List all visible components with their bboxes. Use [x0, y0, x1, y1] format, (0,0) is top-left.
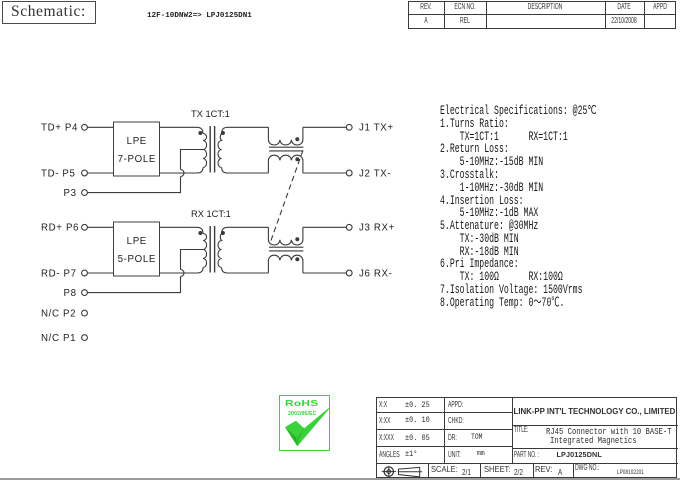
choke RX top winding	[268, 227, 303, 245]
revision table	[408, 1, 676, 29]
tolerance row X:X	[379, 399, 387, 411]
dwg no cell	[575, 462, 599, 474]
phase dot RX secondary	[221, 231, 225, 235]
wire P5 to LPE	[87, 172, 113, 174]
scale cell	[431, 464, 458, 476]
part no label	[514, 449, 539, 461]
choke RX core	[269, 247, 303, 251]
svg-text:P8: P8	[64, 288, 77, 299]
wire TX secondary bottom to choke	[222, 168, 269, 174]
tolerance row X:XXX	[379, 432, 394, 444]
choke TX bottom winding	[268, 155, 303, 173]
choke TX core	[269, 147, 303, 151]
wire transformer TX center tap to P3 riser	[181, 150, 204, 170]
wire hop over P5 wire	[181, 170, 185, 177]
schematic title box	[2, 1, 96, 24]
LPE 7-POLE filter box	[114, 122, 160, 176]
phase dot TX choke bottom	[295, 157, 299, 161]
pin P4 (TD+)	[82, 124, 88, 130]
wire transformer RX center tap to P8 riser	[181, 250, 204, 270]
sheet cell	[484, 464, 510, 476]
transformer RX secondary winding	[218, 234, 222, 268]
title block	[376, 397, 677, 478]
svg-text:RD- P7: RD- P7	[41, 268, 77, 279]
pin J6 RX-	[346, 270, 352, 276]
wire LPE to transformer TX primary top	[159, 127, 203, 133]
pin J3 RX+	[346, 224, 352, 230]
svg-text:LPE: LPE	[127, 136, 147, 147]
rev cell	[535, 464, 552, 476]
wire riser to P3 rail	[87, 177, 180, 193]
wire TX secondary top to choke	[222, 127, 269, 133]
pin P5 (TD-)	[82, 170, 88, 176]
company name	[514, 406, 676, 418]
wire choke to J6	[303, 272, 346, 274]
transformer TX primary winding upper half	[203, 134, 207, 150]
svg-text:N/C P2: N/C P2	[41, 309, 76, 320]
electrical specifications text	[440, 105, 597, 309]
pin P3	[82, 190, 88, 196]
sign row CHKD:	[448, 415, 464, 427]
wire LPE to transformer RX primary bottom	[159, 268, 203, 274]
pin P7 (RD-)	[82, 270, 88, 276]
drawing title line 1	[546, 426, 672, 439]
wire riser to P8 rail	[87, 277, 180, 293]
title label	[514, 424, 529, 436]
transformer RX primary winding lower half	[203, 250, 207, 268]
wire P6 to LPE	[87, 226, 113, 228]
svg-text:P3: P3	[64, 188, 77, 199]
tolerance row ANGLES	[379, 449, 400, 461]
wire P7 to LPE	[87, 272, 113, 274]
pin P1 (N/C)	[82, 335, 88, 341]
bottom page edge line	[0, 478, 680, 480]
svg-text:J2 TX-: J2 TX-	[359, 168, 391, 179]
part mapping note	[147, 12, 252, 21]
svg-text:TD+ P4: TD+ P4	[41, 123, 78, 134]
svg-text:7-POLE: 7-POLE	[118, 154, 156, 165]
phase dot RX choke bottom	[295, 257, 299, 261]
svg-text:LPE: LPE	[127, 236, 147, 247]
pin J2 TX-	[346, 170, 352, 176]
tolerance row X:XX	[379, 415, 391, 427]
svg-text:TX 1CT:1: TX 1CT:1	[191, 109, 230, 119]
transformer TX secondary winding	[218, 134, 222, 168]
sign row UNIT:	[448, 449, 461, 461]
pin P8	[82, 290, 88, 296]
wire LPE to transformer RX primary top	[159, 227, 203, 233]
part number	[556, 450, 601, 461]
pin J1 TX+	[346, 124, 352, 130]
phase dot TX choke top	[295, 137, 299, 141]
wire choke to J2	[303, 172, 346, 174]
dashed center-tap link TX choke to RX choke	[271, 151, 303, 242]
transformer TX core	[210, 126, 214, 173]
wire hop over P7 wire	[181, 270, 185, 277]
LPE 5-POLE filter box	[114, 222, 160, 276]
transformer RX core	[210, 226, 214, 273]
RoHS logo	[279, 395, 330, 451]
drawing title line 2	[550, 435, 637, 448]
svg-text:J6 RX-: J6 RX-	[359, 268, 393, 279]
wire RX secondary bottom to choke	[222, 268, 269, 274]
svg-text:TD- P5: TD- P5	[41, 168, 76, 179]
svg-text:RD+ P6: RD+ P6	[41, 223, 79, 234]
wire choke to J3	[303, 226, 346, 228]
svg-text:J3 RX+: J3 RX+	[359, 223, 395, 234]
svg-text:J1 TX+: J1 TX+	[359, 123, 394, 134]
wire RX secondary top to choke	[222, 227, 269, 233]
wire P4 to LPE	[87, 126, 113, 128]
choke RX bottom winding	[268, 255, 303, 273]
svg-text:N/C P1: N/C P1	[41, 333, 76, 344]
phase dot TX secondary	[221, 131, 225, 135]
wire LPE to transformer TX primary bottom	[159, 168, 203, 174]
choke TX top winding	[268, 127, 303, 145]
phase dot RX primary	[198, 231, 202, 235]
pin P6 (RD+)	[82, 224, 88, 230]
pin P2 (N/C)	[82, 310, 88, 316]
transformer TX primary winding lower half	[203, 150, 207, 168]
transformer RX primary winding upper half	[203, 234, 207, 250]
first-angle projection symbol	[377, 463, 427, 479]
phase dot RX choke top	[295, 237, 299, 241]
svg-text:5-POLE: 5-POLE	[118, 254, 156, 265]
wire choke to J1	[303, 126, 346, 128]
svg-text:RX 1CT:1: RX 1CT:1	[191, 209, 231, 219]
sign row DR:	[448, 432, 457, 444]
phase dot TX primary	[198, 131, 202, 135]
sign row APPD:	[448, 399, 463, 411]
